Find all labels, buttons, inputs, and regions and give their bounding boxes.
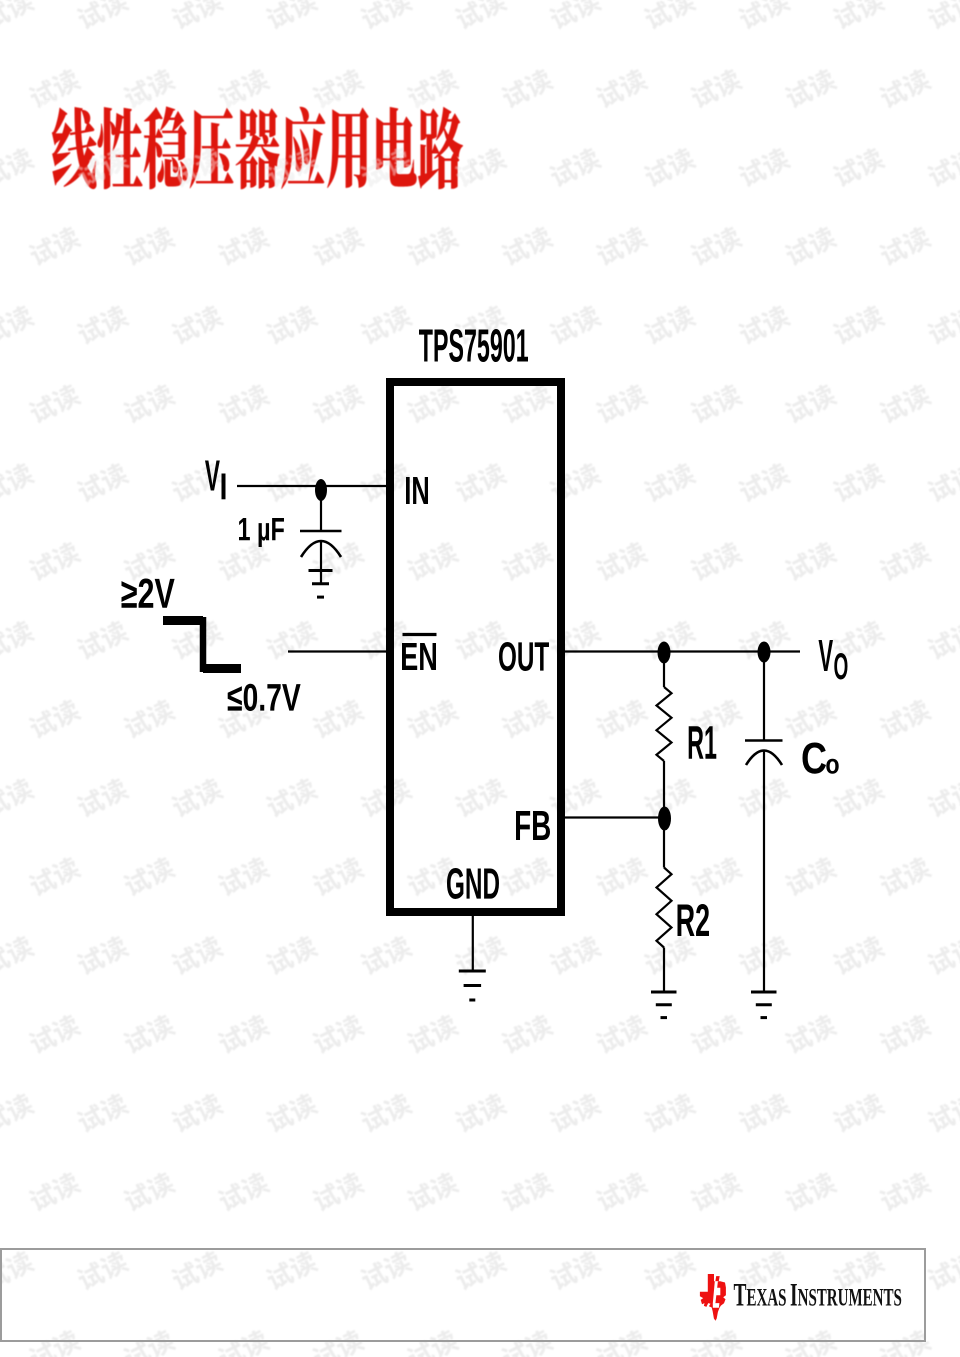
- label VO: [819, 640, 833, 671]
- resistor R1: [657, 687, 672, 761]
- wire FB node to R2: [663, 826, 665, 868]
- ground under Co: [751, 991, 777, 994]
- svg-text:TEXASINSTRUMENTS: TEXASINSTRUMENTS: [734, 1276, 902, 1313]
- footer frame: [1, 1249, 925, 1341]
- junction node B on OUT wire: [758, 642, 771, 663]
- enable step waveform falling edge: [200, 617, 207, 672]
- wire GND pin to ground: [472, 915, 474, 970]
- wire VI to IN: [237, 485, 390, 487]
- label 1uF: [239, 518, 284, 547]
- label R1: [689, 726, 717, 758]
- label <=0.7V: [228, 684, 301, 711]
- label >=2V: [122, 579, 175, 608]
- ground under GND pin: [459, 970, 486, 973]
- capacitor Co top plate: [745, 739, 783, 742]
- pin EN label: [402, 643, 436, 670]
- pin IN label: [406, 477, 428, 504]
- wire node B to capacitor Co: [763, 660, 765, 740]
- label R2: [678, 904, 709, 936]
- node VI label: [205, 460, 220, 490]
- capacitor C1 1uF top plate: [300, 530, 342, 533]
- capacitor C1 1uF curved plate: [301, 541, 341, 557]
- wire R1 to FB node: [663, 761, 665, 810]
- junction node FB: [658, 807, 671, 831]
- pin OUT label: [499, 642, 549, 671]
- pin EN overline: [403, 633, 437, 636]
- Texas Instruments logo (red): [700, 1274, 726, 1321]
- Texas Instruments wordmark: [734, 1276, 902, 1313]
- pin FB label: [516, 811, 550, 840]
- junction node on IN wire: [315, 479, 327, 501]
- junction node A on OUT wire: [658, 642, 671, 664]
- op-amp U1 TPS75901 regulator body: [390, 382, 561, 912]
- pin GND label: [447, 868, 499, 899]
- wire EN input: [288, 650, 390, 652]
- label Co: [803, 743, 827, 774]
- ground under C1: [309, 569, 333, 572]
- ground under R2: [651, 991, 677, 994]
- wire R2 to ground: [663, 948, 665, 992]
- label TPS75901: [419, 329, 528, 362]
- resistor R2: [657, 868, 672, 948]
- capacitor Co curved plate: [746, 751, 782, 766]
- wire OUT to VO: [561, 650, 800, 652]
- enable step waveform high level: [163, 616, 203, 625]
- wire node A to R1: [663, 660, 665, 687]
- enable step waveform low level: [203, 664, 241, 673]
- title 线性稳压器应用电路: [52, 106, 463, 189]
- wire FB pin: [561, 816, 660, 818]
- wire capacitor to ground: [320, 541, 322, 584]
- wire Co to ground: [763, 751, 765, 992]
- wire junction to capacitor C1: [320, 490, 322, 531]
